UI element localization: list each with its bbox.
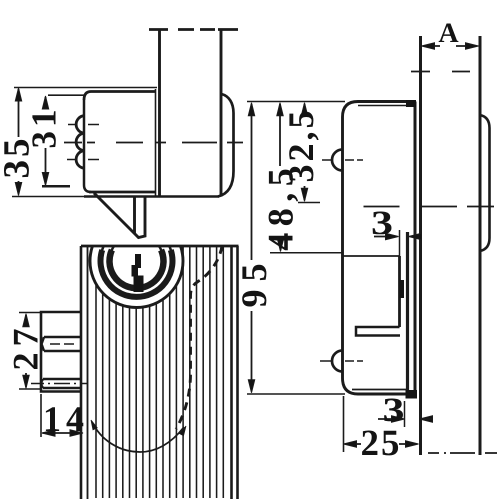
bottom dash-dot centerline [428, 452, 497, 454]
label 35 [4, 140, 29, 177]
bottom extension line for 95 [247, 393, 345, 395]
body left edge with scallops [84, 100, 91, 192]
cam swing arc [92, 422, 184, 452]
keyhole [132, 254, 144, 292]
dim 25 [345, 443, 416, 445]
label 3 bottom [384, 399, 403, 422]
plate left edge double line [80, 246, 83, 499]
cylinder inner ring thin [110, 234, 164, 288]
cylinder middle ring thin [101, 225, 173, 297]
panel right edge [479, 36, 482, 455]
label 3 top [373, 212, 392, 235]
label 25 [362, 431, 398, 456]
cylinder middle ring heavy lower arc [100, 250, 172, 297]
cam tab outline [218, 94, 234, 197]
lower bolt dash-dot centerline [31, 383, 87, 385]
barrel right line [220, 30, 223, 197]
body corner junction blob [406, 100, 416, 107]
cylinder inner ring heavy lower arc [110, 250, 164, 288]
lower bottom line with dim35 extension [12, 196, 84, 198]
screw boss bottom [332, 351, 343, 372]
scallop dash top [68, 124, 99, 126]
latch triangle [94, 193, 145, 238]
dim 3 bottom [378, 418, 398, 420]
left tab outline [41, 312, 82, 392]
dim 48,5 bottom extension [270, 252, 342, 254]
dim A line [424, 45, 475, 47]
extension line dim31 top [48, 94, 86, 96]
label A [439, 24, 459, 43]
latch tip block [406, 390, 418, 399]
screw boss top [332, 150, 343, 171]
body right edge [414, 102, 417, 395]
label 95 [242, 265, 266, 307]
label 31 [32, 111, 56, 147]
dim line 31 [45, 97, 47, 184]
cam pin [400, 280, 405, 298]
dim line 95 [251, 104, 253, 391]
label 32,5 [289, 112, 318, 181]
hidden dash line middle [364, 206, 495, 208]
dim line 32,5 [304, 104, 306, 200]
mounting strip [406, 232, 409, 390]
lower bolt [42, 379, 83, 388]
hidden cam silhouette (dashed) [176, 246, 222, 429]
body bottom edge [89, 191, 156, 194]
barrel top edge ticks and hidden dashes [149, 28, 238, 31]
plate top edge [81, 245, 239, 248]
plate right edge double line [230, 246, 233, 499]
seam line [343, 255, 400, 257]
dim 32,5 bottom extension [298, 202, 320, 204]
extension line dim35 top [14, 87, 157, 89]
cylinder outer circle [90, 215, 183, 308]
body right inner edge [155, 89, 157, 196]
cam vertical and foot [399, 230, 401, 256]
panel back tab [480, 115, 490, 251]
centerline dashes [64, 142, 243, 144]
dim31 bottom extension [42, 185, 70, 188]
dim line 35 [18, 89, 20, 193]
hidden dash line upper [411, 71, 470, 73]
label 48,5 [269, 170, 299, 251]
dim 14 extension [40, 394, 42, 437]
dim 27 extensions [19, 313, 40, 390]
dim line 27 [25, 315, 27, 387]
cylinder white knockout [89, 213, 184, 308]
dim 3 top [374, 236, 392, 238]
top extension line + body top edge [247, 101, 345, 103]
scallop dash bottom [67, 159, 99, 161]
body top edge [84, 92, 156, 101]
scallop bumps [76, 116, 84, 169]
inner bottom line [352, 389, 407, 391]
label 27 [14, 329, 38, 369]
dim line 48,5 [279, 104, 282, 250]
dim 25 left extension [343, 396, 345, 452]
body bottom-left corner and bottom edge [343, 378, 409, 394]
panel left edge [419, 36, 422, 455]
upper bolt center dashes [50, 343, 74, 345]
plate hatch lines [96, 246, 223, 498]
barrel left line [158, 30, 161, 197]
body left edge [341, 117, 344, 378]
dim line 14 [43, 432, 83, 434]
inner top line [358, 105, 413, 107]
label 14 [46, 407, 83, 431]
upper bolt [42, 337, 83, 351]
